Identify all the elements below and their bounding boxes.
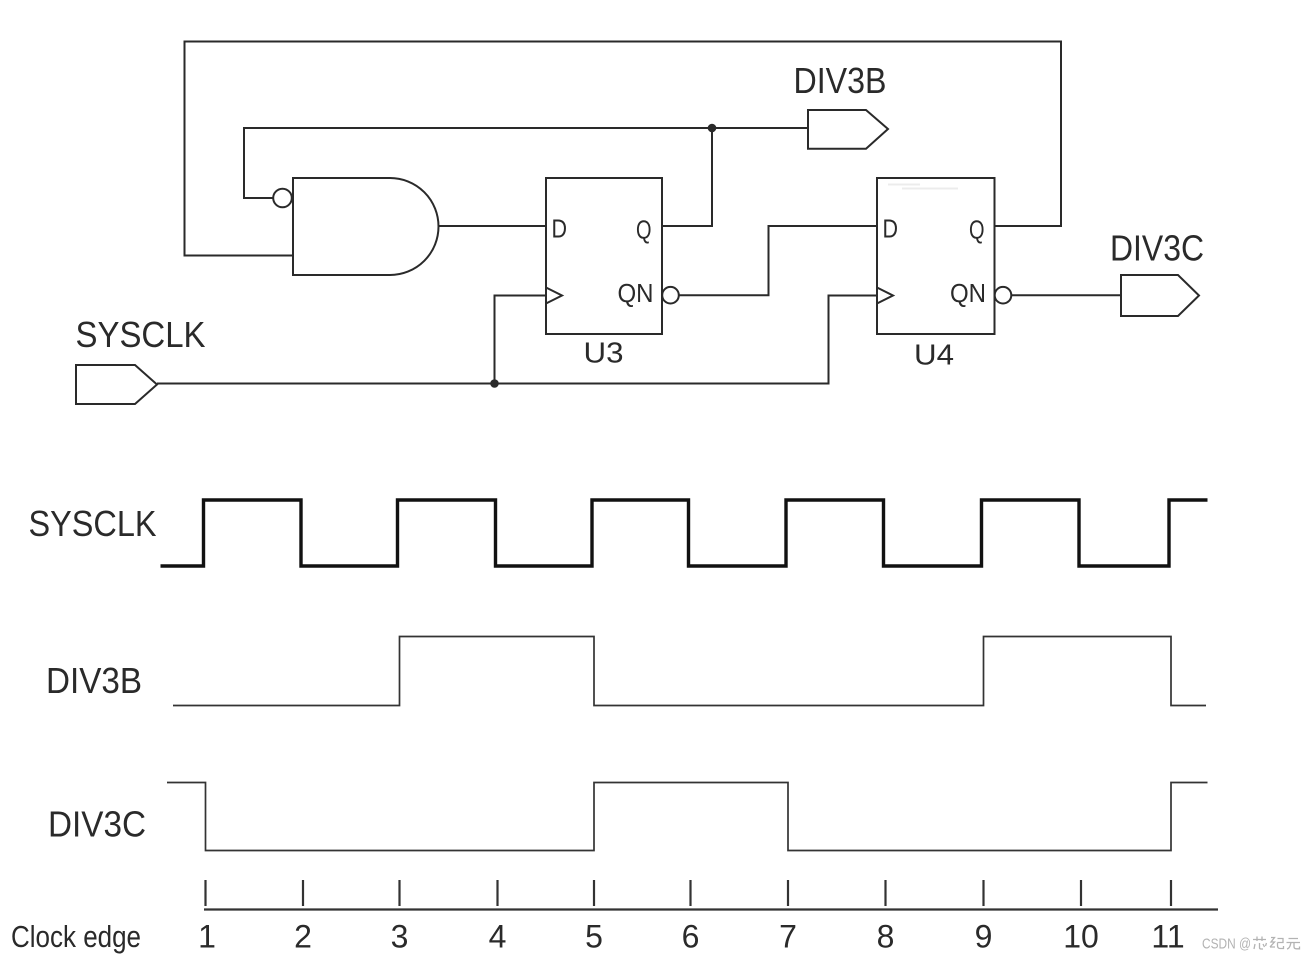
hanzi 芯 approximation bbox=[1253, 937, 1300, 950]
waveform DIV3B (thin trace) bbox=[173, 637, 1206, 706]
U3 clock triangle bbox=[546, 288, 562, 304]
watermark CSDN @芯纪元 bbox=[1202, 937, 1300, 953]
svg-text:CSDN @: CSDN @ bbox=[1202, 937, 1251, 953]
U3 QN bubble bbox=[662, 287, 679, 304]
wire U3.Q up to node DIV3B bbox=[662, 128, 712, 226]
faint artifact mark inside U4 bbox=[888, 185, 958, 189]
U4 QN bubble bbox=[995, 287, 1012, 304]
svg-text:SYSCLK: SYSCLK bbox=[76, 314, 206, 355]
svg-text:QN: QN bbox=[950, 278, 986, 308]
svg-text:D: D bbox=[552, 214, 568, 244]
svg-text:7: 7 bbox=[779, 919, 797, 955]
svg-text:Q: Q bbox=[969, 215, 985, 245]
clock-edge axis line bbox=[204, 908, 1218, 910]
svg-text:2: 2 bbox=[294, 919, 312, 955]
svg-text:D: D bbox=[883, 214, 899, 244]
svg-text:5: 5 bbox=[585, 919, 603, 955]
port symbol DIV3B bbox=[808, 110, 888, 149]
port symbol DIV3C bbox=[1121, 275, 1199, 316]
svg-text:10: 10 bbox=[1063, 919, 1099, 955]
svg-text:1: 1 bbox=[198, 919, 216, 955]
wire SYSCLK net bbox=[157, 296, 877, 384]
svg-text:DIV3B: DIV3B bbox=[46, 660, 142, 701]
wire SYSCLK branch to U3 clock bbox=[495, 296, 547, 384]
svg-text:DIV3C: DIV3C bbox=[48, 804, 146, 845]
wire AND output to U3.D bbox=[439, 225, 547, 227]
svg-text:3: 3 bbox=[391, 919, 409, 955]
hanzi 纪 approximation bbox=[1270, 938, 1284, 949]
wire U4.QN to port DIV3C bbox=[1011, 294, 1121, 296]
waveform DIV3C (thin trace) bbox=[167, 783, 1208, 851]
svg-text:4: 4 bbox=[489, 919, 507, 955]
clock-edge tick marks 1-11 bbox=[206, 880, 1172, 906]
flip-flop U3 body bbox=[546, 178, 662, 334]
junction dot on DIV3B net bbox=[708, 124, 717, 133]
svg-text:U3: U3 bbox=[584, 338, 624, 370]
svg-text:Clock edge: Clock edge bbox=[11, 919, 141, 954]
hanzi 元 approximation bbox=[1287, 939, 1301, 950]
svg-text:SYSCLK: SYSCLK bbox=[29, 503, 157, 544]
svg-text:DIV3C: DIV3C bbox=[1110, 228, 1204, 269]
wire inner feedback (net DIV3B to AND top input) bbox=[244, 128, 808, 198]
svg-text:9: 9 bbox=[975, 919, 993, 955]
waveform SYSCLK (thick trace) bbox=[161, 500, 1208, 566]
and-gate G1 bbox=[293, 178, 439, 275]
svg-text:QN: QN bbox=[618, 278, 654, 308]
wire outer feedback loop (U4.Q to AND bottom input) bbox=[185, 42, 1062, 256]
svg-text:Q: Q bbox=[636, 215, 652, 245]
axis numbers 1-11 bbox=[198, 919, 1185, 955]
svg-text:6: 6 bbox=[682, 919, 700, 955]
svg-text:U4: U4 bbox=[914, 340, 954, 372]
inverter bubble on AND gate top input bbox=[273, 189, 292, 208]
svg-text:DIV3B: DIV3B bbox=[794, 60, 887, 101]
flip-flop U4 body bbox=[877, 178, 995, 334]
port symbol SYSCLK bbox=[76, 365, 157, 404]
junction dot on SYSCLK net bbox=[490, 379, 499, 388]
svg-text:11: 11 bbox=[1151, 919, 1184, 955]
svg-text:8: 8 bbox=[877, 919, 895, 955]
U4 clock triangle bbox=[877, 288, 893, 304]
wire U3.QN to U4.D bbox=[679, 226, 877, 295]
